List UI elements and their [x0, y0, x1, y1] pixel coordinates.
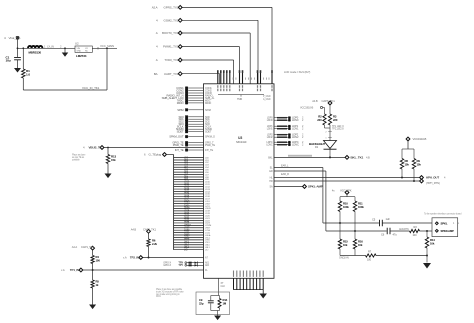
- svg-text:100: 100: [96, 258, 101, 262]
- resistor R3: [328, 114, 331, 125]
- resistor array pin LDPC: [274, 141, 277, 143]
- svg-text:LIO: LIO: [184, 249, 188, 251]
- svg-text:LDN0: LDN0: [267, 119, 274, 122]
- capacitor C5: [380, 220, 383, 226]
- wire: top signal PWM1_TX1: [182, 46, 240, 48]
- bottom pin comb to ground: [233, 278, 235, 289]
- wire to crystal: [218, 278, 220, 295]
- svg-text:LDN2: LDN2: [292, 135, 299, 139]
- capacitor C1: [17, 48, 19, 57]
- wire: top signal UART_TX1: [182, 73, 220, 75]
- svg-text:SPKM_O: SPKM_O: [205, 135, 215, 139]
- node PWM1_TX1: [178, 45, 182, 49]
- svg-text:A: A: [156, 58, 158, 62]
- wire: pin INT_TE: [188, 149, 203, 151]
- resistor R18: [401, 149, 403, 159]
- wire: pin SDET: [188, 131, 203, 133]
- svg-text:220: 220: [317, 118, 322, 122]
- svg-text:220: 220: [333, 118, 338, 122]
- resistor array pin LDN0: [274, 119, 277, 121]
- svg-text:10u: 10u: [6, 59, 11, 63]
- wire: pin RADIO_INT_N: [188, 95, 203, 97]
- resistor R10: [339, 197, 341, 201]
- pin node circle: [320, 106, 322, 108]
- resistor array pin LDP0: [274, 117, 277, 119]
- svg-text:INT_TE: INT_TE: [175, 148, 184, 152]
- svg-text:TP2_IN: TP2_IN: [130, 256, 139, 260]
- svg-text:TMR: TMR: [237, 97, 242, 101]
- svg-text:A2.A: A2.A: [152, 6, 158, 10]
- wire HP_R long: [274, 180, 420, 182]
- svg-text:LIO: LIO: [205, 249, 209, 251]
- svg-text:S3C2410: S3C2410: [236, 140, 247, 144]
- wire: pin MDIO: [188, 102, 203, 104]
- resistor chain GPIO column: [91, 246, 95, 250]
- wire line B (SPKR): [326, 230, 387, 232]
- ground: [14, 68, 21, 73]
- wire: pin SD1: [188, 118, 203, 120]
- svg-text:10k: 10k: [358, 243, 363, 247]
- svg-text:INT_TE: INT_TE: [205, 148, 213, 152]
- svg-text:VCC1910-B: VCC1910-B: [413, 137, 427, 141]
- wire: top signal GPRS_TX1: [182, 6, 272, 8]
- svg-text:GND: GND: [77, 51, 82, 53]
- svg-text:1.0: 1.0: [26, 72, 30, 76]
- wire HP_L long: [274, 177, 420, 179]
- svg-text:10k: 10k: [430, 241, 435, 245]
- svg-text:CAP1_TK1: CAP1_TK1: [81, 245, 94, 249]
- LCD data lines block: [174, 157, 204, 159]
- svg-text:LCD mode = 8x/1 (8x?): LCD mode = 8x/1 (8x?): [284, 70, 310, 74]
- wire audio L out: [274, 167, 323, 169]
- svg-text:ER: ER: [269, 170, 273, 173]
- svg-text:x.A: x.A: [61, 268, 65, 272]
- svg-text:SPKL-AMP: SPKL-AMP: [308, 185, 323, 189]
- svg-text:CAP2_TK1: CAP2_TK1: [143, 227, 156, 231]
- crystal network box: [196, 292, 230, 315]
- svg-text:SPKL: SPKL: [441, 221, 448, 225]
- svg-text:LDNC: LDNC: [292, 143, 299, 147]
- svg-text:x.A: x.A: [123, 256, 127, 260]
- LED D1: [324, 141, 337, 149]
- svg-text:To the speaker interface conne: To the speaker interface connector board: [424, 213, 462, 216]
- svg-text:MDIO: MDIO: [177, 101, 185, 105]
- resistor R14: [219, 296, 221, 299]
- capacitor C6 polarized: [387, 228, 390, 234]
- resistor R17 series: [366, 254, 377, 257]
- node HP_R: [420, 179, 424, 183]
- resistor array pin LDN1: [274, 128, 277, 130]
- bracket timer group inside top: [218, 94, 264, 96]
- svg-text:LDNC: LDNC: [266, 144, 273, 147]
- svg-text:47u: 47u: [393, 233, 398, 237]
- wire TP1_IN row: [83, 269, 204, 271]
- top pin stubs: [217, 73, 219, 84]
- node VBUS_TE: [100, 146, 104, 150]
- svg-text:100k: 100k: [343, 205, 349, 209]
- ground: [259, 294, 267, 299]
- wire: top signal GSM2_TX1: [182, 19, 258, 21]
- svg-text:22p: 22p: [199, 301, 204, 305]
- node UART_TX1: [178, 72, 182, 76]
- wire bottom bar: [340, 255, 355, 257]
- svg-text:100k: 100k: [358, 205, 364, 209]
- svg-text:2.2k: 2.2k: [152, 242, 157, 246]
- svg-text:SA: SA: [269, 186, 273, 189]
- wire: pin SPKM_OUT: [188, 136, 203, 138]
- svg-text:LDN1: LDN1: [292, 127, 299, 131]
- resistor R11: [354, 197, 356, 201]
- svg-text:CLK: CLK: [221, 285, 226, 288]
- resistor R1: [22, 48, 24, 69]
- wire: pin SD2: [188, 121, 203, 123]
- node BKL_TK1: [345, 156, 349, 160]
- svg-text:SPKR-AMP: SPKR-AMP: [441, 229, 455, 233]
- svg-text:SDET: SDET: [205, 130, 212, 134]
- svg-text:BA: BA: [154, 72, 158, 76]
- svg-text:VCC_MAIN: VCC_MAIN: [100, 44, 114, 48]
- resistor array pin LDP1: [274, 125, 277, 127]
- svg-text:SPIM: SPIM: [205, 108, 211, 112]
- svg-text:GPRS_TX1: GPRS_TX1: [164, 6, 179, 10]
- wire: pin CON1: [188, 87, 203, 89]
- resistor array pin LDNC: [274, 144, 277, 146]
- resistor array pin LDN2: [274, 136, 277, 138]
- svg-text:TXD0_TX1: TXD0_TX1: [164, 58, 178, 62]
- wire: top signal TXD0_TX1: [182, 59, 234, 61]
- resistor R19: [413, 149, 415, 159]
- speaker connector J2: [432, 218, 458, 237]
- svg-text:SPKM_OUT: SPKM_OUT: [169, 135, 184, 139]
- regulator U2: [75, 46, 92, 52]
- svg-text:PWM1_TX1: PWM1_TX1: [163, 45, 179, 49]
- svg-text:U2: U2: [75, 42, 79, 46]
- svg-text:TPY: TPY: [178, 263, 183, 267]
- svg-text:15k: 15k: [405, 162, 410, 166]
- node GSM2_TX1: [178, 18, 182, 22]
- ground: [423, 263, 431, 269]
- wire: main 3V3 rail top-left: [17, 40, 19, 49]
- svg-text:BKL_TK1: BKL_TK1: [351, 155, 364, 159]
- resistor R16 lower-right: [354, 231, 356, 239]
- svg-text:4.B: 4.B: [366, 155, 370, 159]
- svg-text:EAR_R: EAR_R: [281, 172, 289, 176]
- node HP_L: [420, 176, 424, 180]
- resistor R12 series: [410, 229, 420, 232]
- svg-text:VBUS_TE: VBUS_TE: [89, 146, 102, 150]
- wire: pin CON3: [188, 92, 203, 94]
- junction: [22, 47, 24, 49]
- resistor array pin LDP2: [274, 134, 277, 136]
- svg-text:GPIO-X: GPIO-X: [163, 264, 171, 267]
- wire line A (SPKL): [323, 222, 379, 224]
- wire: pin MDC: [188, 99, 203, 101]
- node TXD0_TX1: [178, 58, 182, 62]
- svg-text:TP1_IN: TP1_IN: [70, 268, 79, 272]
- svg-text:VCC_IO_TK1: VCC_IO_TK1: [82, 86, 100, 90]
- svg-text:LM2734: LM2734: [76, 54, 87, 58]
- wire: pin SD0: [188, 116, 203, 118]
- svg-text:P_GND: P_GND: [263, 96, 271, 98]
- svg-text:HPH_OUT: HPH_OUT: [426, 176, 439, 180]
- capacitor C9: [210, 296, 212, 301]
- resistor R16 column: [147, 229, 151, 233]
- svg-text:AUD-RTN: AUD-RTN: [399, 228, 409, 231]
- svg-text:VCC1910-B: VCC1910-B: [300, 106, 313, 110]
- wire BKL net: [274, 156, 345, 158]
- svg-text:U3: U3: [238, 136, 242, 140]
- svg-text:MDIO: MDIO: [205, 101, 211, 105]
- svg-text:Vbat_TL1: Vbat_TL1: [9, 36, 22, 40]
- svg-text:LX_IN: LX_IN: [47, 44, 54, 48]
- svg-text:MBRS130: MBRS130: [29, 51, 42, 55]
- svg-text:BOOT0_TX1: BOOT0_TX1: [162, 31, 179, 35]
- wire SPK amp: [274, 186, 303, 188]
- svg-text:15k: 15k: [111, 158, 116, 162]
- svg-text:GND2-IN: GND2-IN: [339, 256, 349, 260]
- node VCC pullup: [406, 137, 410, 141]
- resistor R15 lower-left: [339, 223, 341, 239]
- wire VBUS_TE: [104, 147, 204, 149]
- ground (U2): [64, 48, 66, 52]
- svg-text:HR: HR: [269, 180, 273, 183]
- svg-text:PWR_TE: PWR_TE: [205, 143, 215, 147]
- svg-text:A4.B: A4.B: [312, 99, 318, 103]
- wire: pin SCMD: [188, 128, 203, 130]
- wire: pin CON2: [188, 90, 203, 92]
- inductor L1: [28, 46, 42, 48]
- svg-text:UART_TX1: UART_TX1: [164, 72, 179, 76]
- wire audio R out: [274, 170, 326, 172]
- ground: [214, 316, 221, 321]
- svg-text:10k: 10k: [343, 243, 348, 247]
- wire: pin SMB_ALERT_LCD: [188, 97, 203, 99]
- svg-text:PWR_TE: PWR_TE: [173, 143, 184, 147]
- node VCC_SPK: [345, 191, 349, 195]
- svg-text:G_TEplug: G_TEplug: [149, 153, 162, 157]
- node CAPS_TK1: [328, 101, 332, 105]
- svg-text:A4.A: A4.A: [72, 245, 78, 249]
- wire TP2_IN row: [143, 257, 204, 259]
- svg-text:1uF: 1uF: [386, 217, 391, 221]
- node G_TEplug: [163, 153, 167, 157]
- wire to LCD bus: [166, 154, 173, 156]
- ground: [105, 174, 112, 179]
- svg-text:TP2_LED_K: TP2_LED_K: [332, 129, 344, 131]
- svg-text:GSM2_TX1: GSM2_TX1: [164, 18, 179, 22]
- wire: top signal BOOT0_TX1: [182, 32, 250, 34]
- resistor R13b to gnd: [426, 231, 428, 237]
- svg-text:VCC-SPK: VCC-SPK: [340, 189, 352, 193]
- svg-text:MCU: MCU: [156, 296, 161, 298]
- wire: LCD data bus vertical: [173, 155, 175, 250]
- node BOOT0_TX1: [178, 31, 182, 35]
- svg-text:A_GND: A_GND: [263, 98, 271, 101]
- resistor R2: [323, 114, 326, 125]
- resistor R13: [107, 148, 109, 155]
- svg-text:(HPH_RTN): (HPH_RTN): [426, 181, 440, 185]
- svg-text:EAR_L: EAR_L: [281, 164, 289, 168]
- svg-text:CAPS_TK1: CAPS_TK1: [322, 99, 336, 103]
- wire: pin SCLK: [188, 126, 203, 128]
- svg-text:LDN1: LDN1: [267, 128, 274, 131]
- wire: pin GPIO_TE: [188, 142, 203, 144]
- svg-text:A: A: [156, 31, 158, 35]
- node GPRS_TX1: [178, 6, 182, 10]
- svg-text:LDN2: LDN2: [267, 136, 274, 139]
- junction: [17, 47, 19, 49]
- ground: [89, 305, 96, 310]
- op-amp U3 main IC box: [204, 84, 275, 278]
- wire: feedback bottom loop: [23, 89, 107, 91]
- svg-text:LDN0: LDN0: [292, 118, 299, 122]
- svg-text:A4.B: A4.B: [131, 227, 137, 231]
- wire: pin SD3: [188, 123, 203, 125]
- svg-text:15k: 15k: [417, 162, 422, 166]
- wire: pin PWR_TE: [188, 144, 203, 146]
- resistor R5: [92, 270, 94, 280]
- svg-text:SDET: SDET: [177, 130, 184, 134]
- wire: pin SPIM: [188, 109, 203, 111]
- svg-text:possible: possible: [72, 160, 80, 162]
- node Vbat_TL1 input connector: [16, 36, 19, 39]
- svg-text:SPIM: SPIM: [177, 108, 184, 112]
